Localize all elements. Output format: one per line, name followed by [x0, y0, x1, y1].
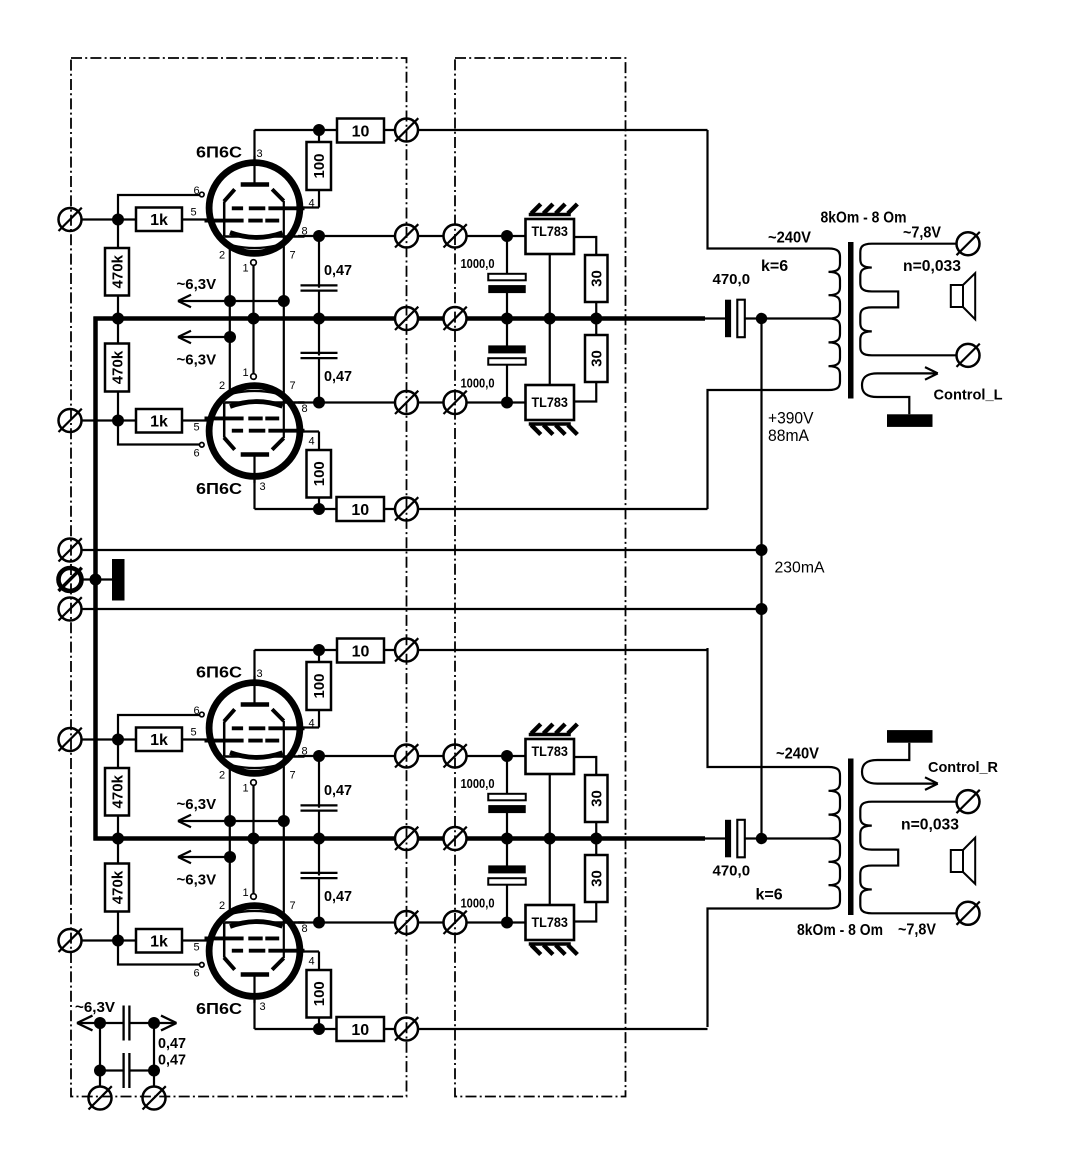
svg-text:30: 30 — [589, 350, 606, 367]
svg-text:470k: 470k — [109, 350, 126, 384]
svg-text:0,47: 0,47 — [324, 782, 352, 799]
svg-text:8: 8 — [302, 226, 308, 238]
svg-text:100: 100 — [311, 673, 328, 698]
svg-text:6: 6 — [194, 968, 200, 980]
svg-text:30: 30 — [589, 870, 606, 887]
svg-text:3: 3 — [257, 668, 263, 680]
svg-text:230mA: 230mA — [775, 560, 825, 577]
svg-text:10: 10 — [352, 123, 370, 140]
svg-text:470k: 470k — [109, 774, 126, 808]
svg-text:0,47: 0,47 — [324, 262, 352, 279]
svg-text:5: 5 — [191, 727, 197, 739]
svg-text:4: 4 — [309, 198, 315, 210]
svg-text:2: 2 — [219, 770, 225, 782]
svg-text:0,47: 0,47 — [324, 888, 352, 905]
svg-text:6: 6 — [194, 185, 200, 197]
svg-text:1k: 1k — [150, 934, 168, 951]
svg-text:1000,0: 1000,0 — [461, 897, 495, 911]
svg-text:~6,3V: ~6,3V — [177, 796, 217, 813]
svg-text:1000,0: 1000,0 — [461, 377, 495, 391]
svg-text:7: 7 — [290, 900, 296, 912]
svg-text:6: 6 — [194, 448, 200, 460]
svg-text:470,0: 470,0 — [713, 271, 751, 288]
svg-text:3: 3 — [260, 1001, 266, 1013]
svg-text:8kOm - 8 Om: 8kOm - 8 Om — [797, 922, 883, 939]
svg-text:4: 4 — [309, 956, 315, 968]
svg-text:TL783: TL783 — [531, 914, 568, 930]
svg-text:8: 8 — [302, 403, 308, 415]
svg-text:Control_L: Control_L — [934, 387, 1003, 404]
svg-text:k=6: k=6 — [761, 258, 788, 275]
svg-text:~7,8V: ~7,8V — [903, 225, 941, 242]
svg-text:6П6С: 6П6С — [196, 665, 242, 682]
svg-text:470k: 470k — [109, 870, 126, 904]
svg-text:n=0,033: n=0,033 — [901, 817, 959, 834]
svg-text:~240V: ~240V — [776, 746, 819, 763]
svg-text:0,47: 0,47 — [324, 368, 352, 385]
svg-text:10: 10 — [351, 1022, 369, 1039]
svg-text:~6,3V: ~6,3V — [177, 352, 217, 369]
svg-text:1k: 1k — [150, 732, 168, 749]
svg-text:1: 1 — [243, 263, 249, 275]
svg-text:1: 1 — [243, 783, 249, 795]
svg-text:1k: 1k — [150, 414, 168, 431]
svg-text:k=6: k=6 — [756, 887, 783, 904]
svg-text:10: 10 — [352, 643, 370, 660]
svg-text:+390V: +390V — [768, 409, 814, 428]
svg-text:100: 100 — [311, 153, 328, 178]
svg-text:5: 5 — [191, 207, 197, 219]
svg-text:~240V: ~240V — [768, 230, 811, 247]
svg-text:TL783: TL783 — [531, 743, 568, 759]
svg-text:6П6С: 6П6С — [196, 1001, 242, 1018]
svg-text:2: 2 — [219, 900, 225, 912]
svg-text:~6,3V: ~6,3V — [177, 872, 217, 889]
svg-text:7: 7 — [290, 380, 296, 392]
svg-text:8: 8 — [302, 746, 308, 758]
svg-text:10: 10 — [351, 502, 369, 519]
svg-text:4: 4 — [309, 436, 315, 448]
svg-text:2: 2 — [219, 250, 225, 262]
svg-text:88mA: 88mA — [768, 426, 810, 445]
svg-text:1: 1 — [243, 887, 249, 899]
svg-text:470k: 470k — [109, 254, 126, 288]
svg-text:~7,8V: ~7,8V — [898, 922, 936, 939]
svg-text:0,47: 0,47 — [158, 1035, 186, 1052]
svg-text:30: 30 — [589, 790, 606, 807]
svg-text:7: 7 — [290, 770, 296, 782]
svg-text:n=0,033: n=0,033 — [903, 258, 961, 275]
svg-text:3: 3 — [257, 148, 263, 160]
svg-text:TL783: TL783 — [531, 223, 568, 239]
svg-text:2: 2 — [219, 380, 225, 392]
svg-text:1000,0: 1000,0 — [461, 777, 495, 791]
svg-text:4: 4 — [309, 718, 315, 730]
svg-text:1k: 1k — [150, 212, 168, 229]
svg-text:Control_R: Control_R — [928, 759, 998, 776]
svg-text:30: 30 — [589, 270, 606, 287]
svg-text:8: 8 — [302, 923, 308, 935]
svg-text:100: 100 — [311, 461, 328, 486]
svg-text:470,0: 470,0 — [713, 863, 751, 880]
svg-text:100: 100 — [311, 981, 328, 1006]
svg-text:6: 6 — [194, 705, 200, 717]
svg-text:6П6С: 6П6С — [196, 145, 242, 162]
svg-text:7: 7 — [290, 250, 296, 262]
svg-text:5: 5 — [194, 942, 200, 954]
svg-text:6П6С: 6П6С — [196, 481, 242, 498]
svg-text:3: 3 — [260, 481, 266, 493]
svg-text:~6,3V: ~6,3V — [75, 999, 115, 1016]
svg-text:1: 1 — [243, 367, 249, 379]
svg-text:0,47: 0,47 — [158, 1052, 186, 1069]
svg-text:5: 5 — [194, 422, 200, 434]
svg-text:1000,0: 1000,0 — [461, 257, 495, 271]
svg-text:~6,3V: ~6,3V — [177, 276, 217, 293]
svg-text:TL783: TL783 — [531, 394, 568, 410]
svg-text:8kOm - 8 Om: 8kOm - 8 Om — [821, 210, 907, 227]
